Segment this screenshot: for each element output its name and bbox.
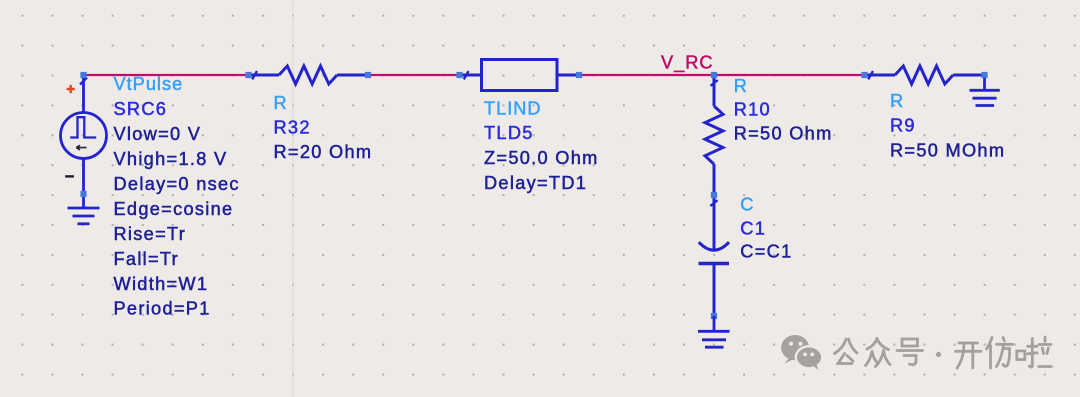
- ground right of R9: [970, 78, 1000, 106]
- svg-text:VtPulse: VtPulse: [114, 74, 184, 94]
- svg-text:V_RC: V_RC: [661, 52, 714, 73]
- resistor R9: [865, 66, 985, 84]
- svg-text:Period=P1: Period=P1: [114, 299, 211, 319]
- node square V_RC junction: [711, 72, 717, 78]
- svg-text:SRC6: SRC6: [114, 99, 168, 119]
- svg-text:C: C: [740, 194, 754, 214]
- wire TLD5 to node V_RC to R9: [579, 74, 865, 76]
- pin1 tick R10: [711, 80, 718, 86]
- wire R32 to TLD5: [368, 74, 460, 76]
- svg-text:TLD5: TLD5: [484, 123, 534, 143]
- node square R10-C1: [711, 192, 717, 198]
- svg-text:Vhigh=1.8 V: Vhigh=1.8 V: [114, 149, 228, 169]
- watermark char zhong: [866, 339, 891, 367]
- watermark char la: [1017, 337, 1052, 367]
- pulse glyph inside SRC6: [70, 117, 96, 137]
- pin1 tick R9: [868, 71, 873, 79]
- svg-text:R32: R32: [274, 117, 311, 137]
- pin1 tick SRC6: [80, 78, 87, 85]
- svg-text:C=C1: C=C1: [740, 242, 792, 262]
- svg-text:Delay=TD1: Delay=TD1: [484, 173, 587, 193]
- svg-text:Delay=0 nsec: Delay=0 nsec: [114, 174, 240, 194]
- watermark char gong: [835, 339, 858, 364]
- svg-text:R9: R9: [890, 116, 916, 136]
- svg-text:R=50 MOhm: R=50 MOhm: [890, 140, 1005, 160]
- watermark char kai: [956, 343, 982, 368]
- watermark wechat icon small bubble: [796, 346, 822, 370]
- watermark char hao: [897, 339, 923, 365]
- voltage source U: VtPulse SRC6: [61, 75, 107, 194]
- svg-text:R10: R10: [734, 100, 771, 120]
- watermark wechat icon big bubble: [781, 335, 809, 364]
- node square R9 right: [981, 72, 987, 78]
- node square SRC6 top: [80, 72, 86, 78]
- svg-text:R=50 Ohm: R=50 Ohm: [734, 124, 833, 144]
- svg-text:R=20 Ohm: R=20 Ohm: [274, 142, 373, 162]
- node square R32 left: [245, 72, 251, 78]
- node square SRC6 bottom: [80, 191, 86, 197]
- resistor R10 (vertical): [705, 75, 723, 195]
- svg-text:Vlow=0 V: Vlow=0 V: [114, 124, 202, 144]
- svg-text:C1: C1: [740, 218, 766, 238]
- pin1 tick C1: [710, 200, 717, 206]
- svg-text:R: R: [274, 93, 288, 113]
- plus polarity mark: [67, 85, 75, 93]
- svg-text:R: R: [734, 76, 748, 96]
- faint page boundary line: [292, 0, 294, 397]
- svg-text:R: R: [890, 91, 904, 111]
- pin1 tick R32: [252, 71, 257, 79]
- pin1 tick TLD5: [464, 71, 469, 79]
- svg-text:Rise=Tr: Rise=Tr: [114, 224, 187, 244]
- node square TLD5 right: [576, 72, 582, 78]
- node square C1 bottom: [711, 313, 717, 319]
- minus polarity mark: [65, 175, 74, 177]
- watermark char fang: [987, 338, 1013, 369]
- ground below SRC6: [68, 194, 100, 224]
- svg-text:Width=W1: Width=W1: [114, 274, 209, 294]
- transmission line TLD5: [460, 60, 580, 91]
- wire SRC6 to R32: [84, 74, 249, 76]
- svg-text:Z=50.0 Ohm: Z=50.0 Ohm: [484, 148, 599, 168]
- node square R9 left: [861, 72, 867, 78]
- svg-text:Edge=cosine: Edge=cosine: [114, 199, 234, 219]
- watermark separator dot: [936, 352, 941, 357]
- node square R32 right: [365, 72, 371, 78]
- resistor R32: [249, 66, 369, 84]
- svg-text:TLIND: TLIND: [484, 99, 542, 119]
- node square TLD5 left: [456, 72, 462, 78]
- svg-text:Fall=Tr: Fall=Tr: [114, 249, 180, 269]
- ground below C1: [698, 316, 730, 347]
- capacitor C1: [699, 195, 730, 316]
- arrow under pulse glyph: [76, 145, 86, 150]
